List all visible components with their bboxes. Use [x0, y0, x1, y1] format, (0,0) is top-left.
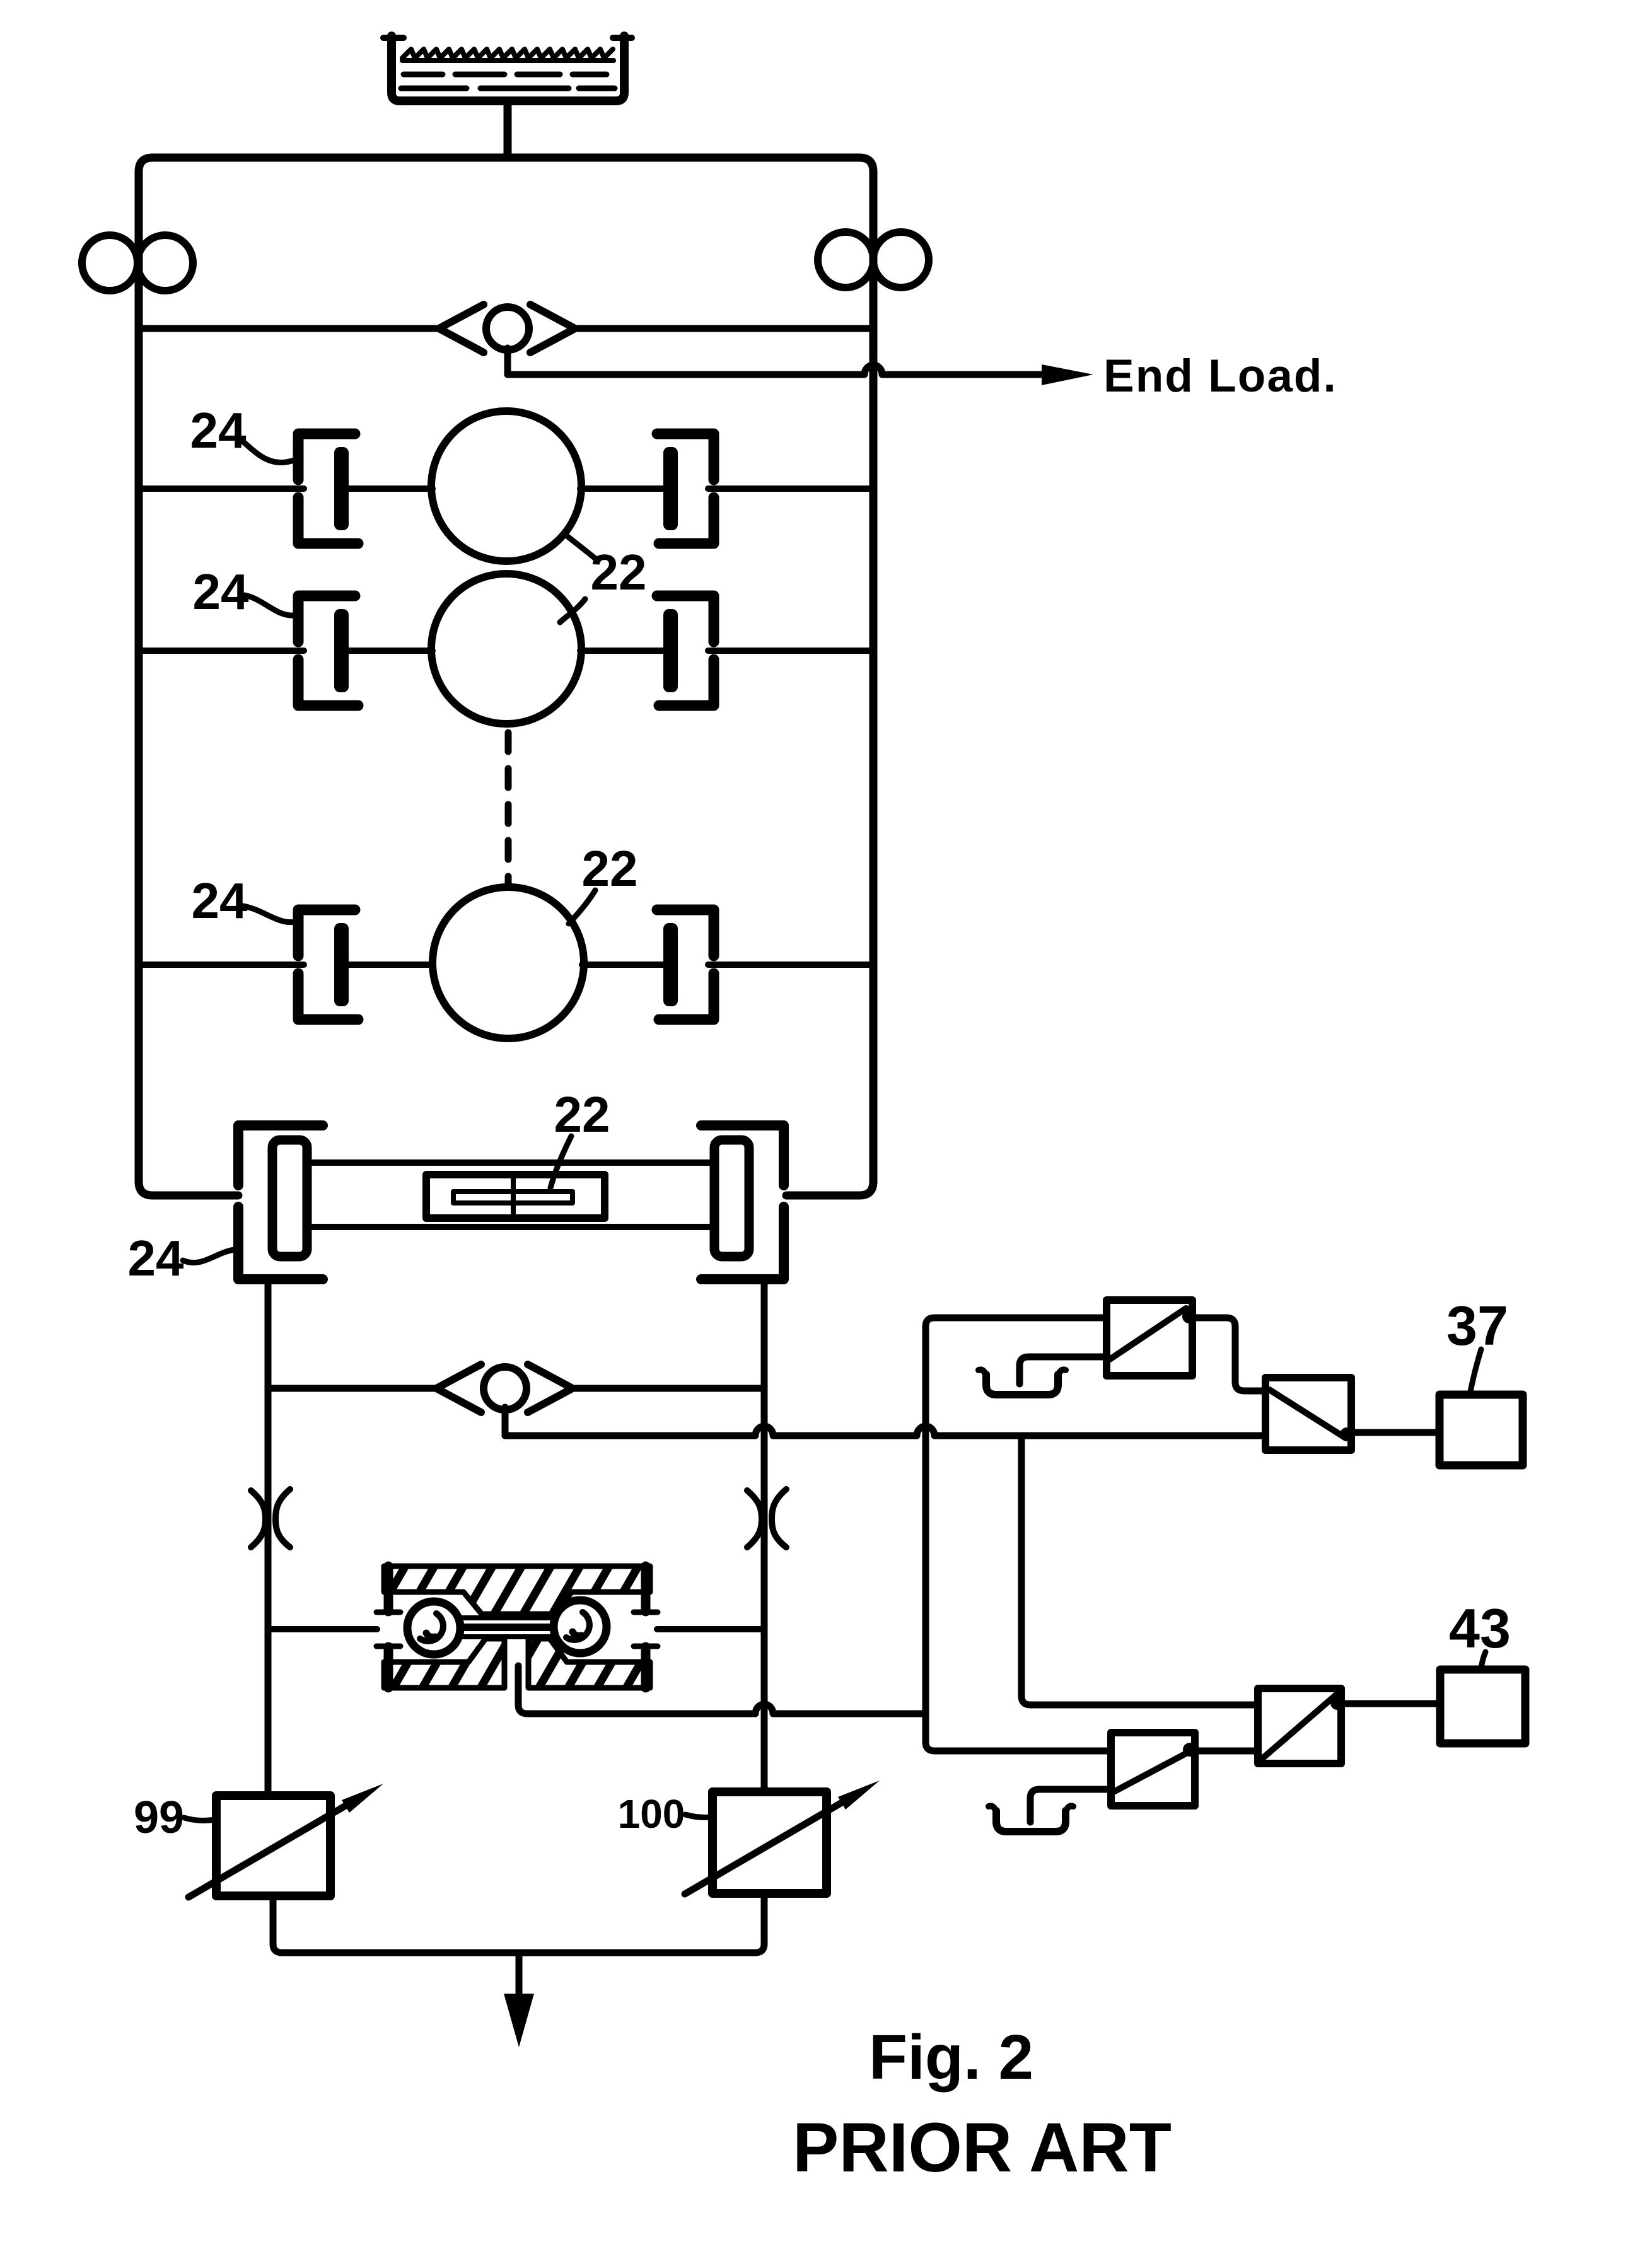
svg-text:24: 24	[190, 402, 247, 458]
svg-text:37: 37	[1446, 1294, 1508, 1357]
svg-text:43: 43	[1449, 1597, 1511, 1659]
svg-text:Fig. 2: Fig. 2	[869, 2022, 1033, 2093]
svg-text:22: 22	[582, 840, 638, 897]
svg-text:24: 24	[193, 564, 249, 620]
svg-text:99: 99	[134, 1792, 184, 1843]
svg-text:100: 100	[618, 1791, 685, 1837]
svg-text:24: 24	[192, 873, 248, 929]
svg-text:End Load.: End Load.	[1103, 351, 1337, 402]
svg-text:24: 24	[128, 1230, 184, 1286]
svg-text:22: 22	[591, 544, 647, 600]
svg-text:PRIOR ART: PRIOR ART	[793, 2109, 1172, 2187]
svg-text:22: 22	[554, 1086, 610, 1142]
